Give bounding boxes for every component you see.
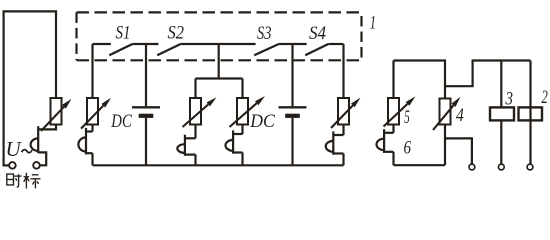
- label 4: [456, 105, 464, 126]
- caption 时标 (time marker): [7, 173, 41, 189]
- label 6: [404, 138, 412, 159]
- wire right-unit bottom bus: [394, 164, 446, 166]
- label DC (left battery): [111, 111, 133, 132]
- component 2 box: [519, 107, 543, 120]
- wire left-unit loop (top and left side of source branch): [4, 11, 56, 165]
- wire right-unit top with step: [394, 61, 531, 87]
- svg-text:1: 1: [370, 12, 376, 33]
- wire below rheostat 4: [445, 125, 472, 166]
- jack plug of time-marker source: [31, 125, 56, 166]
- svg-text:3: 3: [505, 89, 513, 110]
- label S4: [309, 23, 326, 44]
- wire switch bus segments: [93, 43, 344, 45]
- rheostat R3: [230, 96, 266, 127]
- terminal B (right binding post of U~ source): [33, 162, 40, 169]
- wire drop to rheostat R4: [342, 44, 344, 98]
- label 1 (switch unit): [370, 12, 376, 33]
- svg-text:DC: DC: [249, 111, 275, 132]
- jack J3 below R3: [226, 125, 243, 166]
- svg-text:2: 2: [542, 87, 549, 108]
- label S3: [257, 23, 272, 44]
- battery B1 plates: [132, 107, 160, 165]
- wire bottom bus: [93, 164, 344, 166]
- svg-text:S1: S1: [116, 23, 131, 44]
- wire through component 2: [529, 61, 531, 165]
- jack J1 below R1: [78, 125, 92, 166]
- wire drop to battery B2: [291, 44, 293, 106]
- label DC (right battery): [249, 111, 275, 132]
- label 3: [505, 89, 513, 110]
- label 2: [542, 87, 549, 108]
- svg-text:S2: S2: [168, 23, 185, 44]
- component 3 box: [490, 107, 514, 120]
- rheostat R-left (variable resistor of time-marker source): [41, 98, 72, 131]
- svg-text:5: 5: [404, 107, 410, 128]
- rheostat R2: [183, 97, 217, 127]
- svg-text:U: U: [6, 137, 23, 161]
- jack 6: [377, 125, 394, 166]
- wire stem to component 3: [500, 61, 502, 108]
- rheostat 4: [433, 97, 461, 130]
- wire drop to rheostat R1: [91, 44, 93, 98]
- jack J2 below R2: [177, 125, 195, 166]
- rheostat 4 feed: [444, 86, 446, 98]
- svg-text:DC: DC: [111, 111, 133, 132]
- switch S1 blade: [109, 44, 132, 55]
- label S1: [116, 23, 131, 44]
- switch S2 blade: [157, 44, 180, 55]
- wire right-unit left side: [392, 61, 394, 99]
- svg-text:6: 6: [404, 138, 412, 159]
- label S2: [168, 23, 185, 44]
- terminal A (left binding post of U~ source): [9, 162, 16, 169]
- terminal post (below 4): [469, 164, 475, 170]
- dashed enclosure box 1 (switch unit): [77, 12, 362, 60]
- label 5: [404, 107, 410, 128]
- terminal post (below 2): [527, 164, 533, 170]
- wire drop to battery B1: [145, 44, 147, 106]
- terminal post (below 3): [498, 164, 504, 170]
- wire tee to rheostat pair: [196, 44, 243, 98]
- wire below component 3: [500, 120, 502, 164]
- switch S4 blade: [305, 44, 328, 55]
- rheostat R1: [81, 98, 111, 129]
- svg-text:4: 4: [456, 105, 464, 126]
- battery B2 plates: [279, 107, 307, 165]
- svg-text:S3: S3: [257, 23, 272, 44]
- svg-text:S4: S4: [309, 23, 326, 44]
- switch S3 blade: [254, 44, 279, 55]
- jack J4 below R4: [326, 125, 344, 166]
- rheostat 5: [384, 96, 416, 126]
- rheostat R4: [331, 98, 361, 129]
- label U~ (AC source voltage): [6, 137, 33, 161]
